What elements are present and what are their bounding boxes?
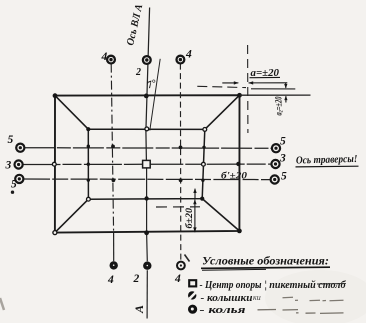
svg-text:- колья: - колья [200,305,246,316]
vertical tick with down arrow (a2 dim top) [284,83,287,89]
node dot right edge row2 [236,162,240,166]
horizontal grid line row 1 [24,147,274,150]
dashed axis vertical (top right) [247,45,249,133]
top edge extension line [240,94,311,96]
svg-text:ки: ки [253,293,261,302]
second slanted angle line [150,59,160,131]
node dot inner corner TL [86,127,90,131]
legend title [201,254,330,271]
paper smudge bottom right [265,270,366,323]
vertical stake line right (dashed) [179,64,181,262]
open node inner corner TR [203,127,207,131]
open node inner right edge row2 [202,162,206,166]
svg-text:Условные обозначения:: Условные обозначения: [202,254,329,268]
stake circle top center [143,56,151,64]
up arrow to row3 line [193,188,196,198]
junction dot V3 row3 [179,178,183,182]
svg-text:4: 4 [174,273,181,285]
legend line 2 text [201,293,261,304]
svg-text:б'±20: б'±20 [221,170,247,181]
corner diagonal bottom-right [202,199,239,231]
svg-text:2: 2 [135,67,141,78]
junction dot V1 row1 [111,145,115,149]
junction dot inner left edge row1 [87,145,90,148]
junction dot inner right edge row3 [201,179,204,182]
svg-text:4: 4 [185,49,192,61]
corner diagonal top-right [205,95,240,129]
node dot outer corner TR [237,93,242,98]
legend symbol filled circle (stakes) [188,305,197,314]
junction dot inner right edge row1 [202,146,205,149]
horizontal grid line row 2 (traverse axis) [23,163,274,165]
svg-text:a2=±20: a2=±20 [274,96,285,115]
open node axis on inner top edge [145,127,149,131]
node dot outer corner TL [53,93,58,98]
svg-text:А: А [132,305,146,314]
node dot outer corner BR [237,229,242,234]
dimension a=±20 label [250,68,281,79]
open node inner corner BL [87,197,91,201]
svg-text:4: 4 [107,274,114,286]
svg-text:4: 4 [101,51,108,63]
vertical stake line left lower solid segment [113,233,115,262]
faint erased marks right of legend line3 [258,310,344,314]
node dot axis on bottom edge [144,230,149,235]
stake circle bottom right (ring) [177,262,185,270]
open node left edge row2 [52,162,56,166]
stake circle left row3 [15,175,23,183]
legend symbol square (center of support) [189,280,196,286]
stray pencil mark near legend [185,255,190,262]
power line axis (slanted, top) [146,8,150,161]
svg-text:Ось траверсы!: Ось траверсы! [296,154,358,167]
node dot axis on inner bottom edge [144,196,148,200]
dimension line a right part with arrow [248,81,287,84]
svg-text:5: 5 [8,134,14,146]
junction dot inner left edge row2 [87,163,90,166]
stake circle right row2 [271,160,279,168]
stake circle top right [177,56,185,64]
faint erased marks right of legend line2 [283,297,344,301]
stray ink dot below left label [11,191,14,194]
dimension б'±20 label [221,170,247,181]
svg-text:- Центр опоры: - Центр опоры [200,280,262,291]
dashed pit line bottom [156,206,200,208]
svg-text:- колышки: - колышки [201,293,253,304]
center axis below circle 2 [146,270,148,318]
svg-text:б±20: б±20 [184,207,194,228]
svg-text:2: 2 [133,273,140,285]
vertical tick with up arrow (a2 dim bottom) [284,96,287,103]
svg-text:5: 5 [281,171,287,183]
faint mark left edge [0,298,4,310]
junction dot V3 row1 [179,146,183,150]
corner diagonal bottom-left [55,199,89,232]
traverse axis label [296,154,359,167]
open node outer corner BL [53,231,57,235]
center axis below square [146,168,149,261]
outer foundation rectangle [55,95,240,232]
svg-text:3: 3 [279,153,286,165]
stake circle top left [107,56,115,64]
legend symbol half-filled circle (pegs) [188,291,197,299]
vertical stake line left (dash-dot) [111,64,113,233]
node dot axis on top edge [144,94,149,99]
legend line 1 text [200,280,347,291]
junction dot V1 row3 [112,178,116,182]
inner pit rectangle [88,129,205,199]
vertical dimension line б with arrows [193,199,196,232]
dashed axis horizontal (top right) [197,86,246,87]
node dot inner corner BR [200,197,204,201]
stake circle left row1 [16,144,24,152]
horizontal grid line row 3 [23,178,273,181]
svg-text:5: 5 [11,179,17,191]
legend line 3 text [200,305,246,316]
stake circle left row2 [15,160,23,168]
short solid line right of corner [251,88,295,90]
junction dot inner left edge row3 [87,178,90,181]
corner diagonal top-left [55,96,88,130]
dimension line a left part with arrow [222,81,239,84]
stake circle right row3 [271,175,279,183]
svg-text:5: 5 [280,136,286,148]
stake circle right row1 [272,144,280,152]
center of support square [143,160,151,168]
stake circle bottom center (filled) [143,262,151,270]
stake circle bottom left (filled) [110,261,118,269]
svg-text:3: 3 [5,160,12,172]
